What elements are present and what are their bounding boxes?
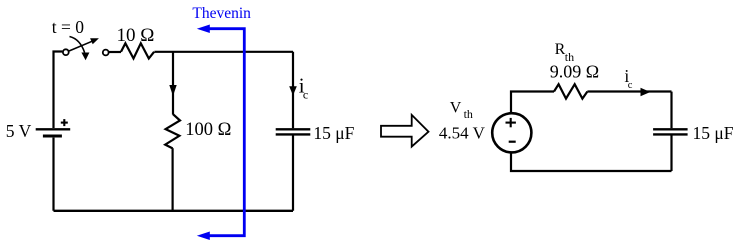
svg-text:10 Ω: 10 Ω — [117, 25, 155, 46]
battery V1 5V — [36, 119, 70, 136]
svg-text:V: V — [450, 99, 462, 116]
svg-text:t = 0: t = 0 — [52, 17, 84, 37]
resistor R2 100 ohm — [165, 114, 180, 148]
resistor R1 10 ohm — [121, 43, 154, 58]
capacitor C1 15uF — [276, 129, 311, 134]
label Rth — [555, 41, 575, 64]
label ic left — [299, 74, 308, 102]
wire right branch bottom — [292, 136, 294, 211]
svg-text:c: c — [628, 80, 633, 91]
svg-text:th: th — [464, 107, 473, 121]
Thevenin cut line (blue) — [197, 25, 245, 241]
wire left branch top (battery + to switch) — [54, 52, 63, 129]
svg-text:5 V: 5 V — [6, 121, 32, 141]
block arrow between circuits — [381, 115, 429, 147]
svg-text:15 μF: 15 μF — [313, 123, 354, 143]
resistor Rth 9.09 ohm — [554, 84, 587, 98]
wire left branch bottom (battery - to bottom rail) — [52, 138, 54, 211]
wire middle branch top with current arrow — [169, 52, 176, 115]
wire bottom rail — [54, 210, 294, 212]
wire bottom rail right circuit — [511, 152, 672, 171]
voltage source Vth circle — [492, 113, 531, 152]
svg-text:9.09 Ω: 9.09 Ω — [550, 62, 599, 82]
label ic right — [624, 66, 632, 91]
wire Rth to right corner with ic arrow — [587, 88, 671, 97]
svg-text:15 μF: 15 μF — [693, 123, 734, 143]
wire middle branch bottom — [172, 148, 174, 211]
svg-text:Thevenin: Thevenin — [192, 5, 251, 22]
wire right vertical top — [670, 92, 672, 129]
svg-text:100 Ω: 100 Ω — [185, 120, 231, 140]
svg-text:4.54 V: 4.54 V — [439, 124, 486, 143]
capacitor C2 15uF — [653, 129, 688, 134]
wire switch to R1 — [109, 51, 121, 53]
label Vth — [450, 99, 473, 121]
svg-text:c: c — [303, 88, 308, 102]
wire right branch top with ic arrow — [289, 52, 297, 128]
wire R1 to top-right corner — [154, 51, 293, 53]
switch SW1 t=0 — [63, 37, 109, 61]
wire source top to Rth — [511, 92, 554, 113]
wire right vertical bottom — [670, 136, 672, 172]
